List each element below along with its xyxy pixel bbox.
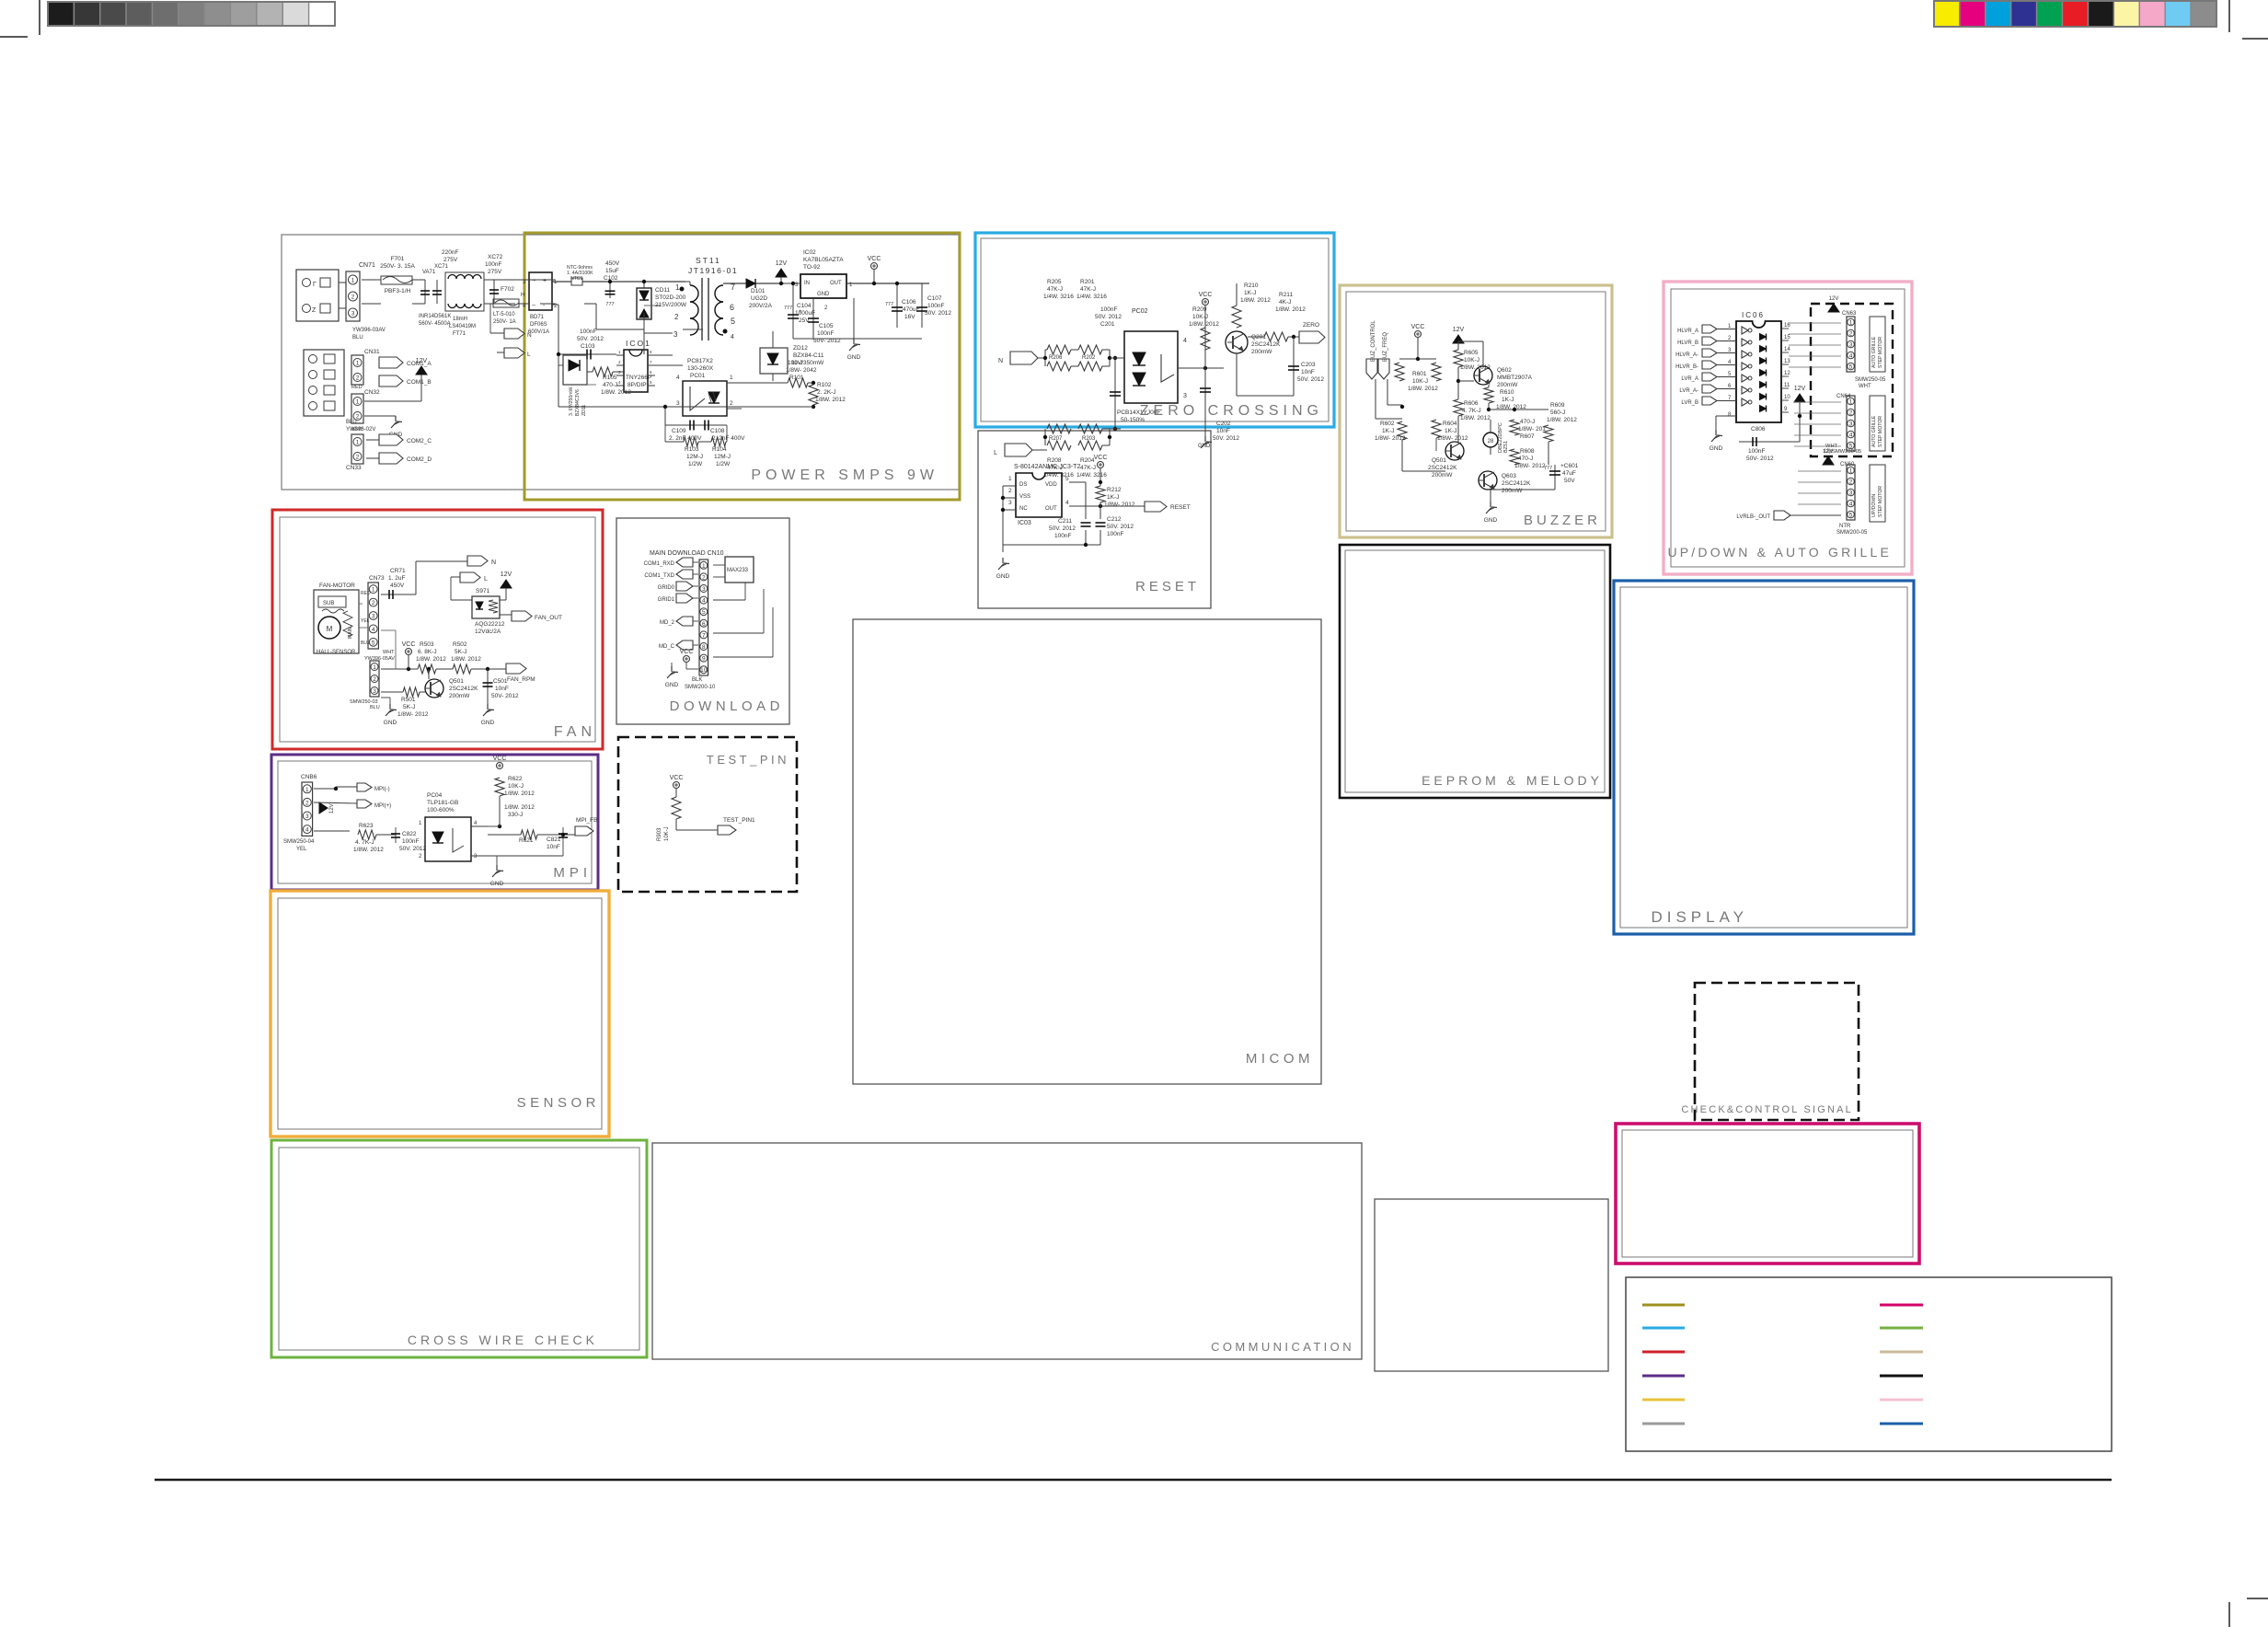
svg-text:TEST_PIN: TEST_PIN [707,753,789,767]
svg-text:1: 1 [351,278,355,284]
svg-text:LVR_B: LVR_B [1681,400,1698,406]
svg-text:3. 6V/250mW: 3. 6V/250mW [569,387,574,416]
svg-text:VCC: VCC [402,641,416,648]
svg-text:12V: 12V [1794,386,1806,392]
svg-text:12V: 12V [501,571,512,578]
ground CN32 [395,416,397,421]
inverter gate [1742,398,1748,406]
transistor Q501 [425,679,443,698]
flag COM2_D [379,453,403,464]
flag COM1_RXD [676,558,693,567]
flag ZERO output [1299,331,1325,343]
svg-text:1/8W. 2012: 1/8W. 2012 [1275,306,1306,313]
svg-text:C501: C501 [493,678,508,685]
svg-text:2. 2K-J: 2. 2K-J [817,389,836,396]
svg-text:Z: Z [312,307,317,314]
svg-text:C203: C203 [1301,362,1316,368]
svg-text:UG2D: UG2D [751,295,767,302]
12V buzzer [1453,335,1464,343]
svg-text:YW396-05AV: YW396-05AV [364,656,395,662]
svg-text:47K-J: 47K-J [1080,286,1096,293]
svg-text:VCC: VCC [680,649,694,655]
svg-text:R605: R605 [1464,350,1479,356]
svg-text:TEST_PIN1: TEST_PIN1 [723,817,755,824]
svg-text:BLU: BLU [361,640,370,646]
12V arrow MPI [319,802,328,813]
svg-text:R204: R204 [1080,457,1095,464]
svg-text:C821: C821 [547,837,561,843]
caps C109 C108 [665,406,813,408]
svg-text:COM1_TXD: COM1_TXD [644,573,674,579]
svg-text:YEL: YEL [361,618,370,624]
svg-text:100nF: 100nF [485,261,501,268]
svg-text:50V. 2012: 50V. 2012 [925,310,951,317]
svg-text:1/8W. 2012: 1/8W. 2012 [1547,417,1577,423]
svg-text:RED: RED [361,591,371,596]
cap C822 [395,827,397,843]
diode D101 [723,283,784,284]
svg-text:Γ: Γ [313,282,317,288]
svg-text:Q501: Q501 [449,678,464,685]
diode array element [1760,382,1767,388]
svg-text:47uF: 47uF [1562,470,1576,477]
VCC fan [406,649,412,655]
svg-text:3: 3 [373,688,376,695]
svg-text:GND: GND [996,573,1010,580]
svg-text:R623: R623 [359,823,374,829]
svg-text:CN31: CN31 [364,349,380,355]
diode array element [1760,346,1767,352]
svg-text:1: 1 [356,399,360,406]
svg-text:12: 12 [1784,371,1790,376]
svg-text:47K-J: 47K-J [1080,465,1096,471]
svg-text:COM1_RXD: COM1_RXD [644,561,675,567]
resistor R106 [593,367,613,376]
svg-text:MPI(-): MPI(-) [374,787,390,792]
SENSOR block frame [271,891,609,1137]
svg-text:12M-J: 12M-J [686,454,703,460]
buzzer BZ51 [1483,433,1498,447]
svg-text:4K-J: 4K-J [1279,299,1291,306]
inverter gate [1742,327,1748,334]
svg-text:VCC: VCC [670,775,684,781]
svg-text:3: 3 [702,586,706,593]
svg-text:IN: IN [804,281,810,286]
reset wires [1099,468,1101,486]
svg-text:GND: GND [817,292,830,297]
svg-text:4: 4 [676,375,680,381]
svg-text:SMW200-05: SMW200-05 [1836,530,1868,536]
cap C203 [1293,337,1295,396]
svg-text:BLU: BLU [346,420,357,425]
svg-text:4: 4 [1849,353,1853,360]
flag RESET [1145,502,1167,512]
svg-text:KA7BL05AZTA: KA7BL05AZTA [803,257,844,263]
svg-text:F701: F701 [391,256,405,262]
flag L fan [460,572,480,583]
svg-text:200mW: 200mW [1502,488,1523,494]
svg-text:GRID1: GRID1 [658,597,675,603]
svg-text:ZERO: ZERO [1303,322,1319,329]
svg-text:GND: GND [847,354,861,361]
svg-text:NTC1: NTC1 [570,276,583,282]
svg-text:+C601: +C601 [1560,463,1579,469]
svg-text:R602: R602 [1380,421,1395,427]
MICOM block frame [853,619,1321,1084]
svg-text:130-260X: 130-260X [687,365,714,372]
svg-text:1/8W. 2012: 1/8W. 2012 [1408,386,1438,392]
svg-text:6. 8K-J: 6. 8K-J [418,649,437,655]
svg-text:FAN-MOTOR: FAN-MOTOR [319,583,355,589]
svg-text:275V: 275V [443,257,458,263]
svg-text:2: 2 [305,800,309,806]
svg-text:250V- 3. 15A: 250V- 3. 15A [380,263,415,270]
svg-text:4: 4 [305,827,309,834]
svg-text:14: 14 [1784,347,1790,352]
svg-text:SMW250-04: SMW250-04 [283,839,315,845]
svg-text:C106: C106 [902,299,916,306]
VCC buzzer [1415,331,1422,338]
svg-text:10K-J: 10K-J [664,826,670,841]
svg-text:LS40419M: LS40419M [449,324,476,329]
svg-text:GND: GND [490,881,504,887]
svg-text:2: 2 [1849,410,1853,417]
svg-text:1: 1 [730,375,733,381]
legend box [1626,1277,2112,1451]
diode array element [1760,370,1767,376]
ground C501 [487,704,489,710]
svg-text:10: 10 [700,667,708,674]
svg-text:12V: 12V [1453,327,1465,333]
svg-text:2: 2 [1849,331,1853,338]
svg-text:SUB: SUB [323,601,334,606]
svg-text:2SC2412K: 2SC2412K [1502,480,1531,487]
svg-text:OUT: OUT [1045,506,1057,512]
svg-text:N: N [998,358,1003,364]
svg-text:PC817X2: PC817X2 [687,358,713,364]
svg-text:200V/2A: 200V/2A [749,303,773,309]
svg-text:1/4W. 3216: 1/4W. 3216 [1076,294,1107,300]
zener ZD12 [760,348,788,374]
svg-text:3: 3 [1849,421,1853,428]
svg-text:F702: F702 [501,286,514,293]
ground buzzer [1490,502,1491,507]
resistors R103 R104 [664,425,666,442]
svg-text:560V- 4500A: 560V- 4500A [419,321,451,327]
svg-text:28: 28 [1488,439,1494,444]
transistor Q603 [1479,471,1497,490]
color calibration bar [1934,1,1960,27]
svg-text:EEPROM & MELODY: EEPROM & MELODY [1422,773,1603,788]
svg-text:5: 5 [731,317,735,326]
diode array element [1760,394,1767,400]
svg-text:CR71: CR71 [390,568,406,574]
svg-text:C211: C211 [1058,518,1072,525]
svg-text:16V: 16V [904,314,915,320]
svg-text:6: 6 [730,303,734,312]
svg-text:RESET: RESET [1135,579,1200,594]
VCC download [684,656,690,663]
svg-text:BLK: BLK [692,677,702,683]
svg-text:250V- 1A: 250V- 1A [493,319,516,325]
ground download [671,666,673,672]
svg-text:R211: R211 [1279,292,1293,298]
svg-text:BLU: BLU [352,335,363,340]
svg-text:IC06: IC06 [1742,311,1765,319]
svg-text:1/8W- 2012: 1/8W- 2012 [1375,435,1406,442]
svg-text:50V: 50V [1564,478,1575,484]
svg-text:2: 2 [356,455,360,461]
svg-text:R203: R203 [1082,436,1096,442]
buzzer wires [1375,379,1376,419]
svg-text:R205: R205 [1047,279,1062,285]
svg-text:1/8W. 2012: 1/8W. 2012 [353,847,384,853]
resistor R605 [1454,350,1463,367]
svg-text:1: 1 [675,283,680,292]
svg-text:10nF: 10nF [547,844,560,850]
flag N [504,329,524,339]
svg-text:3: 3 [351,311,355,317]
svg-text:5: 5 [372,640,375,646]
legend swatch left #29abe2 [1642,1327,1685,1330]
legend swatch right #1b5faa [1880,1423,1923,1425]
svg-text:7: 7 [702,632,706,639]
svg-text:1K-J: 1K-J [1445,428,1456,434]
svg-text:1: 1 [372,587,375,594]
svg-text:UP/DOWN & AUTO GRILLE: UP/DOWN & AUTO GRILLE [1667,545,1892,560]
svg-text:GND: GND [1484,517,1498,524]
svg-text:C212: C212 [1107,516,1122,523]
svg-text:PC01: PC01 [690,373,706,379]
svg-text:COM2_D: COM2_D [407,456,432,463]
svg-text:200mW: 200mW [449,693,470,699]
zener ZD11 snubber [563,355,587,385]
svg-text:VCC: VCC [868,256,881,262]
svg-text:FAN: FAN [554,724,596,740]
svg-text:100-J: 100-J [788,360,802,366]
svg-text:C108: C108 [710,428,725,434]
svg-text:R207: R207 [1049,436,1063,442]
legend swatch left #e8c33b [1642,1399,1685,1402]
svg-text:R202: R202 [1082,355,1096,361]
ground PC04 [496,865,498,871]
svg-text:330-J: 330-J [508,812,523,818]
caps C104 C105 [792,283,794,339]
svg-text:MD_2: MD_2 [660,620,675,626]
wires from opto to transistor [1178,367,1224,369]
svg-text:+: + [543,278,547,284]
svg-text:WHT: WHT [383,650,395,655]
svg-text:5: 5 [702,609,706,616]
flag N fan [467,556,488,566]
12V triangle IC06 [1794,394,1805,402]
svg-text:1/8W. 2012: 1/8W. 2012 [601,389,631,396]
svg-text:1: 1 [373,664,376,671]
primary wires [379,279,381,281]
svg-text:YW396-03AV: YW396-03AV [352,328,386,333]
svg-text:1/8W. 2012: 1/8W. 2012 [504,804,535,811]
svg-text:VCC: VCC [1199,292,1213,298]
svg-text:R206: R206 [1049,355,1063,361]
TEST_PIN dashed frame [618,737,797,892]
svg-text:BLU: BLU [370,705,380,710]
ground fan [389,704,391,710]
caps C106 C107 [896,283,898,328]
EEPROM & MELODY block frame [1340,545,1610,798]
svg-text:FAN_RPM: FAN_RPM [507,676,535,683]
resistor R602 [1398,421,1407,440]
primary ground rail wires [552,304,558,306]
svg-text:Q501: Q501 [1432,457,1446,464]
svg-text:MAIN DOWNLOAD CN10: MAIN DOWNLOAD CN10 [650,550,724,557]
flag COM1_A [379,357,403,368]
svg-text:R601: R601 [1412,371,1427,377]
legend swatch left #9d8f1e [1642,1304,1685,1307]
svg-text:11: 11 [1784,383,1790,388]
svg-text:WHT: WHT [1859,384,1871,389]
12V rail triangle [776,269,787,277]
flag GRID0 [676,582,693,591]
wires download [693,561,698,563]
VCC R622 [497,763,503,769]
svg-text:R201: R201 [1080,279,1095,285]
svg-text:1: 1 [356,440,360,446]
svg-text:200mW: 200mW [1251,349,1272,355]
svg-text:R104: R104 [712,446,727,453]
CROSS WIRE CHECK block frame [271,1140,647,1357]
svg-text:3: 3 [673,330,678,339]
inverter gate [1742,339,1748,346]
IC07 block frame [1375,1199,1608,1371]
svg-text:4: 4 [372,627,375,633]
MAX233 box [725,557,754,583]
svg-text:HLVR_B-: HLVR_B- [1675,364,1698,370]
svg-text:1/8W. 2012: 1/8W. 2012 [1240,297,1271,304]
svg-text:LVRLB-_OUT: LVRLB-_OUT [1736,514,1770,520]
svg-text:2SC2412K: 2SC2412K [449,686,478,692]
12V fan [501,580,512,588]
svg-text:777: 777 [1544,466,1552,471]
svg-text:C806: C806 [1751,426,1766,433]
svg-text:CN63: CN63 [1842,311,1857,317]
svg-text:10nF: 10nF [495,686,509,692]
cap C202 [1204,368,1206,412]
svg-text:470-J: 470-J [1520,419,1535,425]
resistor R501 [381,691,403,693]
svg-text:1K-J: 1K-J [1502,397,1514,403]
VCC symbol [1203,299,1209,306]
svg-text:R208: R208 [1047,457,1062,464]
svg-text:BZX84-C11: BZX84-C11 [793,352,824,359]
VCC reset [1098,462,1104,468]
svg-text:2: 2 [373,676,376,683]
svg-text:100nF: 100nF [1100,306,1117,313]
dashed motor box [1811,304,1893,456]
svg-text:10nF: 10nF [1216,428,1230,434]
svg-text:4. 7K-J: 4. 7K-J [355,839,374,846]
AUTO GRILLE STEP MOTOR box 1 [1870,317,1885,372]
svg-text:MMBT2907A: MMBT2907A [1497,375,1533,381]
zener CD11 ST02D-200 [637,288,651,319]
svg-text:CROSS WIRE CHECK: CROSS WIRE CHECK [408,1333,598,1347]
svg-text:H: H [521,293,524,298]
svg-text:9: 9 [702,656,706,663]
top-right crop mark [2228,0,2230,32]
CHECK&CONTROL SIGNAL dashed frame [1695,983,1859,1120]
legend swatch right #d4006b [1880,1304,1923,1307]
svg-text:BUZ_FREQ: BUZ_FREQ [1383,332,1388,362]
svg-text:4. 7K-J: 4. 7K-J [1462,408,1481,414]
svg-text:1/8W- 2042: 1/8W- 2042 [786,367,817,374]
MPI block frame [271,755,598,890]
svg-text:50V. 2012: 50V. 2012 [1095,314,1122,320]
svg-text:5: 5 [1849,513,1853,519]
svg-text:PBF3-1/H: PBF3-1/H [385,288,411,294]
svg-text:10K-J: 10K-J [1412,378,1428,385]
svg-text:M: M [327,625,333,633]
svg-text:50V- 2012: 50V- 2012 [491,693,519,699]
svg-text:MPI: MPI [553,865,592,881]
svg-text:12V: 12V [1829,296,1839,302]
svg-text:13: 13 [1784,359,1790,364]
flag GRID1 [676,594,693,603]
svg-text:1: 1 [1849,468,1853,475]
svg-text:~: ~ [532,278,535,284]
svg-text:50V- 2012: 50V- 2012 [1746,456,1774,462]
svg-text:1/4W. 3216: 1/4W. 3216 [1043,294,1074,300]
12V triangle at CN32 [416,366,427,375]
svg-text:50V. 2012: 50V. 2012 [399,846,426,852]
svg-text:CN71: CN71 [359,262,375,269]
svg-text:47K-J: 47K-J [1047,286,1063,293]
svg-text:GND: GND [384,720,397,726]
svg-text:100nF: 100nF [1054,533,1071,539]
svg-text:1/8W- 201: 1/8W- 201 [1518,426,1546,433]
svg-text:1/8W. 2012: 1/8W. 2012 [815,397,846,403]
connector CN31 terminal [304,350,344,416]
EEV/MPI motor block frame [1616,1124,1919,1264]
svg-text:10K-J: 10K-J [1464,357,1479,363]
svg-text:S-80142ANMC-JC3-T2: S-80142ANMC-JC3-T2 [1014,464,1080,470]
svg-text:1/8W. 2012: 1/8W. 2012 [504,790,535,797]
svg-text:3: 3 [1183,393,1187,399]
svg-text:PC02: PC02 [1132,308,1148,315]
svg-text:L: L [484,576,488,583]
svg-text:R102: R102 [817,382,832,388]
svg-text:SMW250-05: SMW250-05 [1855,377,1886,383]
flag BUZ_FREQ [1378,359,1389,379]
svg-text:MPI(+): MPI(+) [374,803,391,809]
resistor R212 [1096,486,1105,502]
svg-text:GND: GND [1710,445,1723,452]
svg-text:R503: R503 [420,641,434,648]
flag MD_C [676,640,693,650]
svg-text:UP/DOWN: UP/DOWN [1871,494,1877,517]
svg-text:1K-J: 1K-J [1244,290,1256,296]
svg-text:CHECK&CONTROL SIGNAL: CHECK&CONTROL SIGNAL [1681,1104,1853,1115]
svg-text:10nF: 10nF [1301,369,1315,375]
svg-text:COM1_B: COM1_B [407,379,432,386]
connector CN10 [699,560,708,675]
svg-text:IC03: IC03 [1018,520,1031,526]
bottom rule [155,1479,2112,1482]
RESET block frame [978,431,1211,608]
svg-text:1/8W- 2012: 1/8W- 2012 [397,711,429,718]
svg-text:1: 1 [305,787,309,793]
svg-text:50V. 2012: 50V. 2012 [1049,525,1076,532]
svg-text:4: 4 [731,334,734,340]
svg-text:C822: C822 [402,831,417,837]
